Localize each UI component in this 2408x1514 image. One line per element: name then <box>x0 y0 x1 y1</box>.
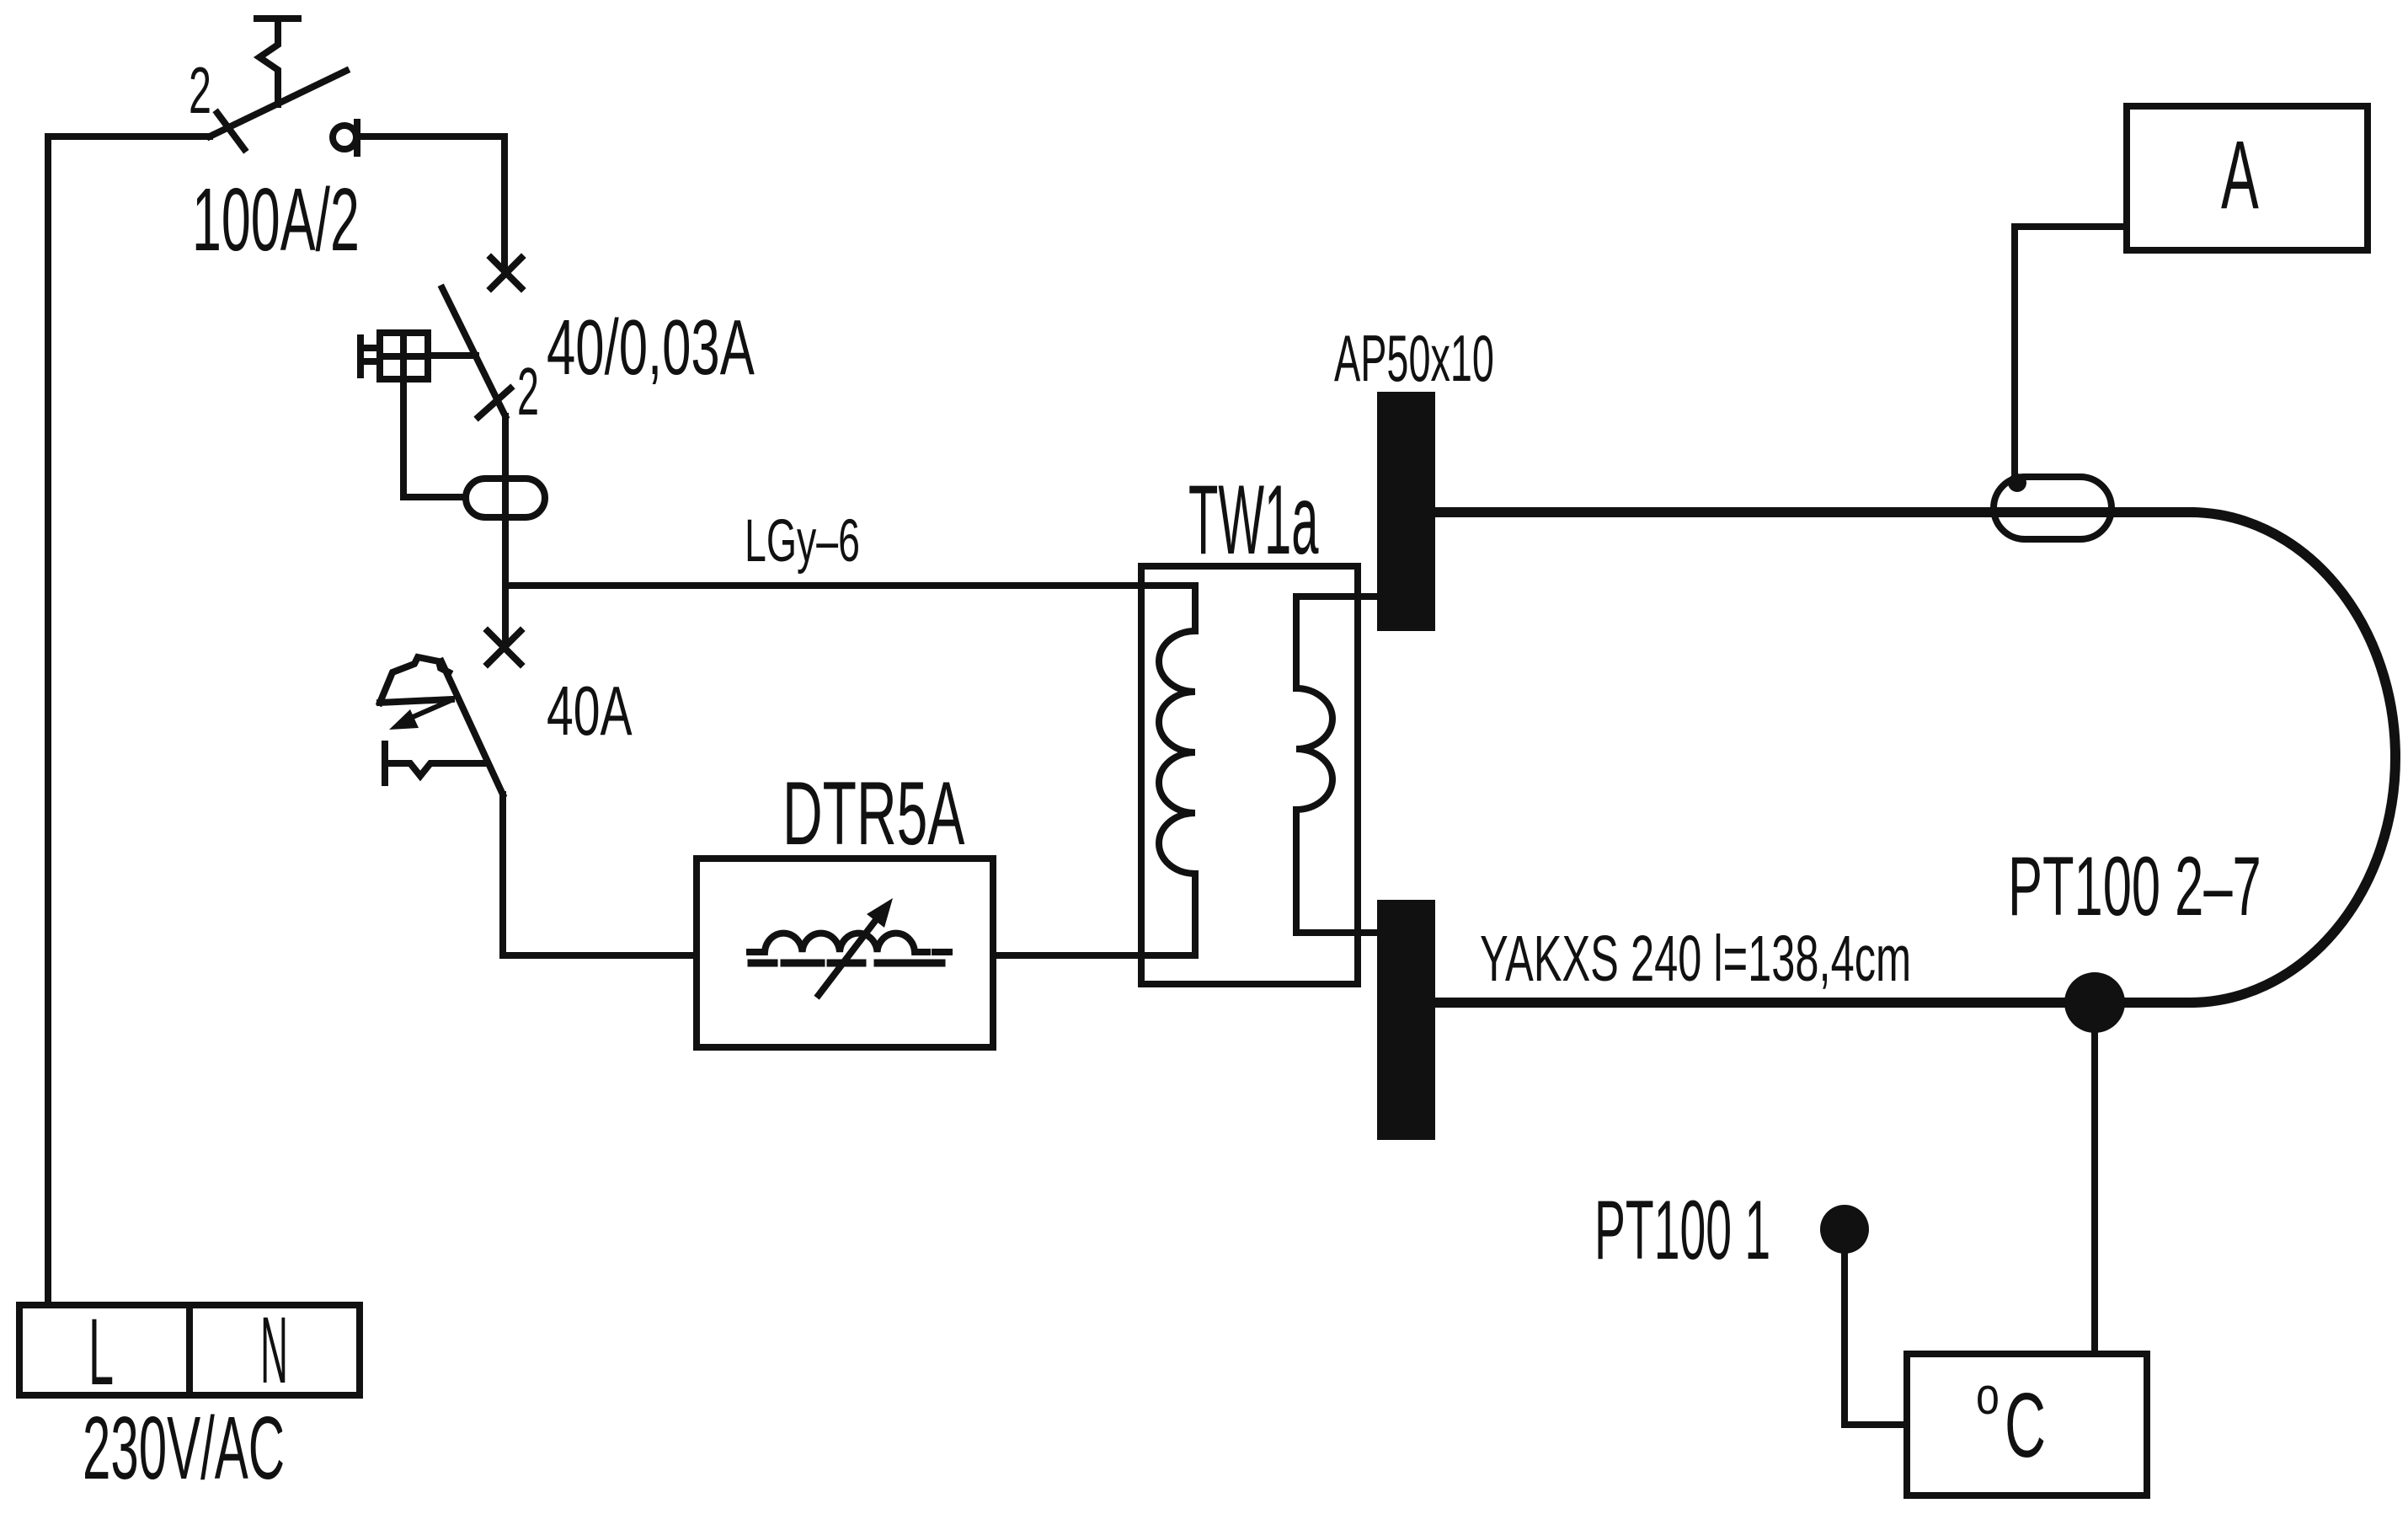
svg-text:2: 2 <box>517 354 539 429</box>
svg-text:230V/AC: 230V/AC <box>83 1399 285 1498</box>
sensor PT100 1 dot <box>1820 1205 1869 1254</box>
breaker 40A electromagnetic release hook <box>385 744 487 783</box>
svg-text:N: N <box>260 1298 288 1403</box>
RCD sensing toroid <box>466 479 545 517</box>
thermometer box °C <box>1907 1354 2147 1495</box>
wire: PT100 1 to thermometer <box>1845 1229 1907 1425</box>
clamp connection dot <box>2008 473 2026 492</box>
RCD test button <box>360 333 428 379</box>
svg-text:C: C <box>2005 1375 2046 1477</box>
svg-text:o: o <box>1976 1367 2000 1425</box>
ammeter box A <box>2127 106 2368 250</box>
wire: test button to toroid <box>403 379 466 497</box>
svg-text:L: L <box>88 1298 114 1404</box>
wire: ammeter to clamp <box>2015 227 2127 483</box>
cable YAKXS loop arc <box>2190 512 2395 1003</box>
transformer TW1a secondary winding <box>1296 597 1379 933</box>
wire: RCD blade down through toroid <box>502 416 509 648</box>
node PT100 2-7 junction dot <box>2064 972 2125 1033</box>
wire: test button to blade <box>428 352 476 359</box>
terminal box L N <box>19 1305 360 1395</box>
breaker 40A fixed contact X <box>488 631 521 664</box>
svg-text:A: A <box>2221 120 2259 228</box>
breaker 40A trip arrow <box>389 700 451 730</box>
transformer TW1a box <box>1141 566 1358 984</box>
RCD blade <box>442 288 505 416</box>
cable YAKXS top run <box>1435 507 2190 517</box>
wire: top horizontal to switch pivot <box>48 133 210 140</box>
svg-text:40A: 40A <box>547 673 633 751</box>
autotransformer DTR5A box <box>697 859 993 1047</box>
svg-text:LGy–6: LGy–6 <box>745 507 860 574</box>
RCD fixed contact X <box>491 258 521 288</box>
wire: breaker to DTR5A <box>503 794 697 955</box>
DTR5A dashed core line <box>751 960 942 967</box>
svg-text:100A/2: 100A/2 <box>192 170 360 270</box>
svg-text:PT100 2–7: PT100 2–7 <box>2008 840 2261 934</box>
svg-text:TW1a: TW1a <box>1188 464 1319 575</box>
breaker 40A blade <box>441 661 503 794</box>
switch Q1 fixed contact <box>333 122 357 153</box>
wire: LGy-6 branch to transformer <box>505 582 1195 589</box>
wire: junction to thermometer <box>2091 1003 2098 1354</box>
switch Q1 striker release <box>257 19 298 104</box>
DTR5A winding baseline and bumps <box>750 934 949 952</box>
busbar AP50x10 upper <box>1377 392 1435 631</box>
transformer TW1a primary winding <box>1159 586 1195 955</box>
wire: left feed vertical (L conductor) <box>45 136 51 1305</box>
ammeter current clamp oval <box>1994 477 2112 539</box>
switch Q1 100A/2 blade <box>210 71 346 136</box>
wire: switch to RCD <box>357 136 505 273</box>
svg-text:PT100 1: PT100 1 <box>1594 1183 1770 1276</box>
svg-text:40/0,03A: 40/0,03A <box>547 303 755 391</box>
breaker 40A thermal release flag <box>380 657 451 703</box>
wire: DTR5A to transformer primary <box>993 952 1195 959</box>
busbar AP50x10 lower <box>1377 900 1435 1140</box>
switch Q1 pole slash <box>217 113 244 149</box>
DTR5A variable arrow <box>819 898 893 995</box>
svg-text:AP50x10: AP50x10 <box>1334 322 1494 395</box>
RCD pole slash <box>478 388 510 417</box>
cable YAKXS bottom run <box>1435 998 2190 1008</box>
svg-text:2: 2 <box>189 53 211 127</box>
svg-text:DTR5A: DTR5A <box>782 763 965 864</box>
svg-text:YAKXS 240 l=138,4cm: YAKXS 240 l=138,4cm <box>1480 922 1911 994</box>
